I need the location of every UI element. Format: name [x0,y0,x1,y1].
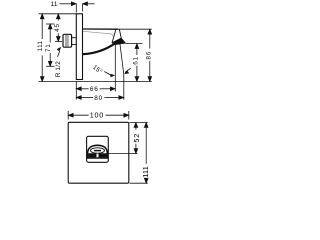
extension outlet slot right (front) [108,153,138,155]
extension plate bottom right (front) [130,182,148,184]
front view escutcheon plate [68,122,129,183]
shield lower dark band [88,153,106,157]
svg-text:45: 45 [54,23,61,32]
svg-text:66: 66 [90,86,99,93]
svg-text:11: 11 [51,1,58,8]
dimension 66 (side, bottom) [77,87,116,91]
spout front slot [94,150,101,152]
dimension 111 (front, right) [144,123,148,184]
fitting neck bottom line [72,44,77,46]
dimension 80 (side, bottom) [77,96,124,100]
svg-text:52: 52 [132,133,141,143]
wall surface extension below plate [75,82,77,100]
dimension 71 (side, left) [46,24,55,66]
15 degree leader arrow right [104,72,110,75]
supply fitting block [63,34,72,47]
extension plate top right (front) [130,122,148,124]
spout tip front face left line [112,29,116,42]
spout tip outlet lip (filled) [112,38,126,45]
spout top edge [83,28,118,30]
fitting gray band [65,35,69,47]
15 degree arrow at slant line [125,68,131,72]
dimension 52 (front, right) [134,123,138,154]
svg-text:R 1/2: R 1/2 [55,61,62,78]
extension line spout top right (86 datum) [118,28,152,30]
spout inner rim (faint) [83,31,113,36]
svg-text:100: 100 [90,111,104,120]
svg-text:71: 71 [45,43,52,52]
shield notch (white) [97,153,99,158]
extension line outlet bottom (61 datum) [126,43,143,45]
dimension 11 (plate thickness) [60,2,95,13]
spout underside curve [83,42,117,54]
dimension 100 (front, top) [68,111,129,120]
wall plate side profile [76,14,82,80]
svg-text:111: 111 [141,166,150,178]
15 degree reference vertical line [114,43,116,91]
15 degree slanted extension polyline [120,41,124,100]
svg-text:111: 111 [37,41,44,52]
dimension 86 (side, right) [148,29,152,81]
svg-text:15°: 15° [91,63,104,76]
dimension 45 (side, left) [55,14,62,42]
spout front inner ellipse [91,148,105,153]
svg-text:86: 86 [146,51,153,60]
front view opening frame [87,136,109,162]
svg-text:80: 80 [94,95,103,102]
fitting neck top line [72,37,77,39]
svg-text:61: 61 [132,56,139,65]
dimension 111 (side, left) [40,14,44,82]
spout front shield [88,145,108,158]
extension line top (plate top, left) [39,13,77,15]
extension line bottom datum [39,81,152,83]
spout tip front face right line [119,29,121,38]
dimension 61 (side, right) [135,44,139,82]
